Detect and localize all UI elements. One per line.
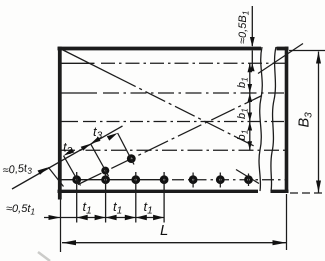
svg-text:≈0,5t3: ≈0,5t3 xyxy=(2,162,33,178)
plate bottom edge xyxy=(58,190,289,193)
svg-text:t1: t1 xyxy=(83,199,92,217)
row axis 3 (dash-dot) xyxy=(60,121,78,123)
faint scan smudge bottom-left xyxy=(38,252,50,261)
svg-text:≈0,5B1: ≈0,5B1 xyxy=(237,10,251,44)
rivet 5 (bottom row) xyxy=(189,175,198,184)
rivet 8 (diagonal, second) xyxy=(101,167,109,175)
arrowheads on b1 chain xyxy=(248,63,253,150)
svg-text:b1: b1 xyxy=(236,77,250,88)
plate left edge xyxy=(58,47,62,200)
plate top edge xyxy=(58,47,289,51)
rivet 1 (bottom row) xyxy=(72,175,81,184)
rivet 2 (bottom row) xyxy=(101,175,110,184)
t1 dimension line xyxy=(44,217,164,219)
rivet extension lines down to t1 dimension xyxy=(76,172,78,223)
perpendicular extension through plate corner xyxy=(48,167,63,186)
diagonal centerline descending from top-left corner xyxy=(59,48,116,77)
row axis 4 (dash-dot) xyxy=(60,149,286,151)
rivet 3 (bottom row) xyxy=(131,175,140,184)
rivet row axis 5: solid through rivets then dash-dot xyxy=(60,179,168,181)
short vertical stubs at rivets 5,6 xyxy=(192,173,194,188)
svg-text:t1: t1 xyxy=(113,199,122,217)
row axis 2 (dash-dot) xyxy=(60,92,97,94)
row axis 1 (dash-dot) xyxy=(60,62,95,64)
left extension line below plate xyxy=(60,196,62,252)
rivet 7 (bottom row) xyxy=(244,175,253,184)
diagonal centerline ascending through staggered rivets xyxy=(78,96,262,185)
perpendicular extension through rivet 1 xyxy=(64,156,81,186)
b1 chain dimension line xyxy=(249,63,251,150)
arrowheads on t3 chain xyxy=(38,133,118,175)
short diagonal through last rivet xyxy=(236,170,259,184)
break wavy line 1 xyxy=(259,47,262,191)
svg-text:b1: b1 xyxy=(236,108,250,119)
svg-text:t1: t1 xyxy=(144,199,153,217)
plate right edge xyxy=(285,47,289,193)
stub at rivet 7 xyxy=(248,174,250,187)
rivet 4 (bottom row) xyxy=(160,175,169,184)
0.5B1 dimension line with outside arrows xyxy=(251,6,253,70)
arrowheads on t1 chain xyxy=(49,215,165,221)
t3 chain dimension line (diagonal) xyxy=(12,126,123,189)
L dimension line xyxy=(62,242,286,244)
svg-text:L: L xyxy=(160,222,168,239)
perpendicular extension through rivet 8 xyxy=(91,144,109,176)
svg-text:t3: t3 xyxy=(93,124,103,142)
top extension line for B3 xyxy=(289,50,325,52)
right extension line below plate xyxy=(286,194,288,250)
svg-text:≈0,5t1: ≈0,5t1 xyxy=(6,203,35,217)
B3 dimension line xyxy=(318,52,320,193)
svg-text:B3: B3 xyxy=(297,112,315,128)
svg-text:b1: b1 xyxy=(236,129,250,140)
svg-text:t3: t3 xyxy=(63,140,73,158)
bottom extension line for B3 (dashed) xyxy=(290,192,323,194)
perpendicular extension through rivet 9 xyxy=(118,133,134,165)
rivet 6 (bottom row) xyxy=(216,175,225,184)
short diagonal crossing top edge near right corner xyxy=(258,44,303,74)
rivet 9 (diagonal, third) xyxy=(127,154,136,163)
break wavy line 2 xyxy=(271,47,276,191)
